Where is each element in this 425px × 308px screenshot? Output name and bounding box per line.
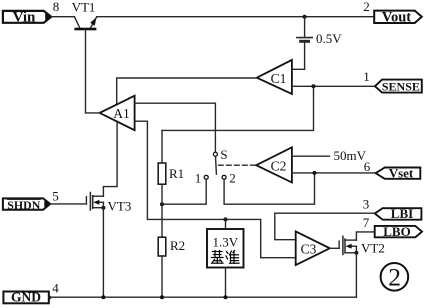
wire rail to battery (304, 17, 306, 38)
svg-text:2: 2 (388, 263, 401, 292)
svg-text:LBI: LBI (391, 206, 413, 221)
transistor VT3 (MOSFET) (86, 193, 103, 211)
svg-text:8: 8 (53, 0, 60, 14)
wire A1 output to VT1 base (86, 30, 100, 113)
wire VT2 drain to LBO (356, 232, 374, 240)
node SENSE junction (312, 84, 316, 88)
reference box 1.3V (207, 219, 244, 297)
svg-text:SHDN: SHDN (7, 199, 41, 212)
node VT3 source (101, 206, 105, 210)
svg-text:7: 7 (363, 215, 370, 230)
wire contact 2 to Vset node (224, 173, 314, 204)
wire A1 input to switch S (135, 103, 216, 152)
svg-text:VT1: VT1 (72, 0, 96, 14)
switch contact 1 (204, 175, 208, 179)
svg-text:2: 2 (363, 0, 370, 14)
wire top rail VT1 collector to Vout (97, 16, 374, 18)
svg-text:VT2: VT2 (361, 241, 385, 256)
comparator C1 (257, 60, 292, 94)
svg-text:5: 5 (52, 189, 59, 204)
svg-text:R2: R2 (170, 238, 185, 253)
node 1.3V reference tap (224, 217, 228, 221)
transistor VT1 (74, 17, 96, 31)
wire ground rail (49, 296, 357, 298)
基 (214, 251, 216, 258)
port Vout (374, 9, 422, 25)
svg-text:6: 6 (364, 159, 371, 174)
svg-text:1.3V: 1.3V (212, 235, 238, 250)
wire contact 1 to R1/R2 junction (162, 179, 206, 204)
svg-text:4: 4 (52, 281, 59, 296)
wire C1 output to A1 (117, 78, 257, 104)
label 基准 (reference) drawn strokes (212, 251, 240, 264)
dashed control link S to C2 (219, 164, 257, 166)
wire C2 input 50mV stub (292, 155, 330, 157)
svg-text:0.5V: 0.5V (316, 31, 342, 46)
svg-text:2: 2 (229, 171, 236, 186)
svg-text:R1: R1 (169, 166, 184, 181)
wire LBI to C3 input (275, 213, 375, 240)
resistor R2 (158, 237, 166, 297)
node top rail / battery junction (303, 15, 307, 19)
comparator C3 (296, 232, 330, 266)
node rail VT3 (101, 295, 105, 299)
wire Vin to VT1 emitter (51, 16, 74, 18)
wire VT3 drain to A1 (103, 121, 117, 196)
port Vset (376, 165, 421, 180)
port Vin (3, 9, 51, 25)
svg-text:C1: C1 (271, 71, 287, 86)
port GND (3, 290, 52, 305)
svg-text:Vset: Vset (389, 165, 414, 180)
wire C3 output to VT2 gate (330, 247, 339, 249)
wire C1 inverting input to SENSE (292, 85, 375, 87)
transistor VT2 (MOSFET) (339, 236, 356, 254)
wire VT3 source to ground rail (102, 202, 104, 297)
svg-text:Vout: Vout (382, 9, 411, 25)
svg-text:SENSE: SENSE (382, 80, 420, 94)
battery 0.5V (297, 38, 312, 42)
node rail R2 (160, 295, 164, 299)
op-amp A1 (100, 96, 135, 131)
svg-text:C3: C3 (301, 242, 317, 257)
svg-text:1: 1 (195, 171, 202, 186)
node VT2 source (354, 251, 358, 255)
svg-text:VT3: VT3 (108, 199, 132, 214)
wire VT2 source to ground rail (355, 246, 357, 297)
node R1/R2 junction (160, 202, 164, 206)
port SHDN (3, 198, 50, 212)
port LBO (375, 224, 422, 239)
svg-text:50mV: 50mV (334, 148, 367, 163)
svg-text:LBO: LBO (383, 224, 410, 239)
svg-text:GND: GND (11, 290, 41, 305)
svg-text:C2: C2 (271, 159, 287, 174)
figure number 2 (381, 263, 409, 292)
switch blade (215, 156, 218, 174)
node rail reference (224, 295, 228, 299)
node Vset junction (313, 171, 317, 175)
resistor R1 (158, 130, 166, 237)
准 (227, 252, 229, 254)
switch contact 2 (222, 175, 226, 179)
svg-text:1: 1 (363, 69, 370, 84)
wire battery to C1 noninverting input (292, 41, 305, 69)
port LBI (375, 206, 422, 221)
wire SHDN to VT3 gate (50, 203, 86, 205)
svg-text:3: 3 (363, 197, 370, 212)
svg-text:Vin: Vin (13, 9, 36, 25)
wire SENSE drop to divider top (162, 86, 314, 130)
comparator C2 (256, 147, 292, 182)
svg-text:A1: A1 (113, 106, 130, 121)
svg-text:S: S (220, 147, 227, 162)
wire C2 input to Vset (292, 172, 376, 174)
port SENSE (375, 80, 422, 94)
switch S common contact (213, 152, 217, 156)
wire A1 input to 1.3V reference node (135, 121, 296, 258)
